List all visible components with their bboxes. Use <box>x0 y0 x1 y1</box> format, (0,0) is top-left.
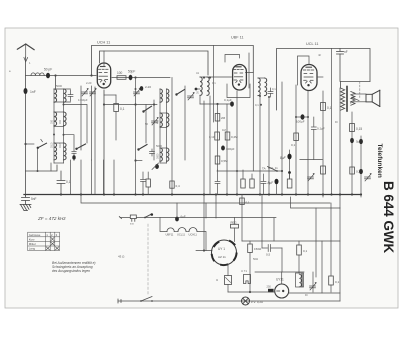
wire UCL anode stub <box>317 76 323 78</box>
ground bus main <box>24 194 361 196</box>
choke coil boxed <box>296 273 304 287</box>
tap arrow <box>352 98 359 101</box>
switch S3 <box>175 93 177 95</box>
mains entry mark <box>118 299 121 303</box>
wire stub above UBF <box>225 55 240 63</box>
svg-text:0310: 0310 <box>51 142 54 148</box>
output transformer primary <box>341 88 345 110</box>
resistor x299 <box>297 245 302 255</box>
inductor L3b <box>64 143 67 160</box>
wire transformer top feed <box>341 81 371 88</box>
capacitor on y241 <box>262 241 282 272</box>
trimmer padder <box>152 117 159 125</box>
wire x95 <box>94 87 96 195</box>
resistor 0.1M on x296 <box>294 133 299 141</box>
svg-text:Dr: Dr <box>335 120 338 124</box>
svg-text:UCH11: UCH11 <box>189 233 198 237</box>
coil bank 1 left winding column <box>53 89 55 163</box>
output transformer secondary <box>351 92 355 106</box>
wire vertical x91.5 mid <box>91 86 93 160</box>
wire x282 long <box>281 82 283 195</box>
svg-text:0000: 0000 <box>157 153 160 159</box>
tube UBF11 electrodes <box>234 67 244 83</box>
wire oscillator anode row <box>112 77 170 79</box>
svg-text:0,1: 0,1 <box>246 201 250 205</box>
svg-text:TA: TA <box>262 167 266 171</box>
capacitor IFT2 <box>268 88 273 97</box>
resistor x172 <box>170 181 174 188</box>
svg-text:0,1: 0,1 <box>327 106 332 110</box>
svg-text:0,1: 0,1 <box>255 103 259 107</box>
svg-text:50Ω: 50Ω <box>253 257 258 261</box>
barretter U71 <box>244 275 251 284</box>
inductor L1b <box>64 89 67 102</box>
coil bank 2 column a <box>159 89 161 163</box>
trimmer bottom <box>310 282 317 290</box>
wire transformer connections <box>353 93 366 95</box>
capacitor 50pF blob <box>46 73 50 79</box>
wire IFT1 to UBF <box>207 76 232 78</box>
capacitor padder <box>150 149 155 156</box>
capacitor across antenna coil <box>68 90 73 101</box>
svg-text:Dr: Dr <box>305 293 308 297</box>
svg-text:0,5: 0,5 <box>266 253 271 257</box>
capacitor blob x361 <box>360 136 362 197</box>
rectifier lower chain <box>227 264 229 276</box>
svg-text:43 Ω: 43 Ω <box>118 255 125 259</box>
wire x217 <box>217 104 219 170</box>
wire vertical x154 <box>153 100 155 160</box>
svg-text:0,1: 0,1 <box>335 280 340 284</box>
ground chassis symbol <box>20 205 31 211</box>
trimmer cluster osc top <box>134 88 141 96</box>
inductor L6a <box>160 148 162 161</box>
svg-text:0,5M: 0,5M <box>221 159 228 163</box>
tube UCL11 electrodes <box>303 67 313 83</box>
switch S1b <box>75 148 77 150</box>
svg-text:030: 030 <box>51 119 54 124</box>
svg-text:Lang: Lang <box>29 247 36 251</box>
svg-text:150Ω: 150Ω <box>254 247 262 251</box>
inductor L2a <box>54 112 57 126</box>
wire x296 long <box>295 85 297 195</box>
capacitor 5nF to chassis <box>22 195 30 205</box>
capacitor small x74 <box>72 152 76 161</box>
node coil taps <box>53 134 55 136</box>
inductor L1a <box>54 89 57 102</box>
svg-text:U 71: U 71 <box>241 269 247 273</box>
wire top loop A <box>92 46 254 76</box>
svg-text:0,1: 0,1 <box>272 87 276 91</box>
wire antenna lead vertical <box>25 57 27 196</box>
svg-text:0,1: 0,1 <box>120 107 125 111</box>
output transformer core <box>346 87 348 112</box>
svg-text:0,4: 0,4 <box>176 184 181 188</box>
wire x116 <box>115 95 117 104</box>
svg-text:Gehäuse: Gehäuse <box>29 233 41 237</box>
wire IFT1 drops <box>199 96 201 104</box>
capacitor blob cluster mid <box>155 164 159 169</box>
resistor 100 <box>117 76 126 80</box>
svg-text:Mittel: Mittel <box>29 242 36 246</box>
svg-text:040: 040 <box>59 119 62 124</box>
tube UCH11 cathode drop <box>103 90 105 195</box>
wire down to coil bank <box>55 76 57 90</box>
wire rail y171 <box>217 170 282 172</box>
svg-text:UY11: UY11 <box>276 278 284 282</box>
switch S1a band switch <box>37 147 39 149</box>
svg-text:P.V. 0,2A: P.V. 0,2A <box>251 300 263 304</box>
svg-text:5000: 5000 <box>56 84 62 88</box>
note italic text <box>52 261 96 273</box>
switch mains selector <box>144 217 146 219</box>
resistor 0.1 x242 <box>240 198 245 205</box>
svg-text:5000: 5000 <box>156 144 162 148</box>
svg-text:250: 250 <box>267 285 272 289</box>
resistor right lower <box>321 166 326 174</box>
wire x177 drop <box>176 203 178 218</box>
capacitor blob on x352 <box>350 138 354 143</box>
capacitor 50pF blob 2 <box>129 75 133 80</box>
components above bus: cluster x143 capacitor <box>141 172 146 195</box>
trimmer capacitor T2 <box>90 88 97 96</box>
svg-text:5nF: 5nF <box>31 197 37 201</box>
resistor x148 <box>146 179 150 187</box>
wire lower rail y208 <box>291 197 341 208</box>
svg-text:U: U <box>216 278 218 282</box>
resistor x243 <box>241 179 245 188</box>
svg-text:2M: 2M <box>221 116 226 120</box>
switch TA pickup <box>276 170 278 172</box>
capacitor blob heater <box>175 217 179 222</box>
svg-text:nF: nF <box>344 50 348 54</box>
svg-text:UY 1: UY 1 <box>218 247 225 251</box>
fuse holder circle <box>275 284 289 298</box>
wire x352 drop <box>351 112 353 195</box>
resistor 2M <box>215 114 220 122</box>
svg-text:6µF: 6µF <box>181 215 186 219</box>
inductor L6b <box>167 148 169 161</box>
svg-text:2-20: 2-20 <box>145 85 151 89</box>
svg-text:0,15: 0,15 <box>356 127 362 131</box>
svg-text:41: 41 <box>196 71 199 75</box>
wire vertical x185 <box>184 86 186 160</box>
resistor 0.1 osc <box>114 104 119 112</box>
wire x331 long <box>331 49 333 195</box>
coil bank 2 column b <box>166 89 168 163</box>
wire x146 <box>145 105 147 144</box>
wire top loop C <box>100 51 209 75</box>
svg-text:0315: 0315 <box>59 142 62 148</box>
svg-text:a a: a a <box>130 223 134 226</box>
wire left return y171 <box>26 165 58 171</box>
wire rail y159.5 <box>300 159 323 161</box>
verticals bus to mains row <box>205 203 207 218</box>
svg-text:0,2M: 0,2M <box>231 135 238 139</box>
tube UBF11 envelope <box>233 65 247 91</box>
svg-text:nF: nF <box>318 53 321 57</box>
inductor antenna series coil <box>31 73 44 76</box>
svg-text:UCL 11: UCL 11 <box>306 42 318 46</box>
node antenna wire at gate <box>90 74 92 76</box>
IF transformer 2 winding a <box>258 78 260 96</box>
resistor x289 <box>287 179 292 188</box>
svg-text:50 pF: 50 pF <box>44 68 52 72</box>
svg-text:des Ausgangstrafos legen: des Ausgangstrafos legen <box>52 269 90 273</box>
capacitor 100uF cathode <box>296 116 308 118</box>
trimmer x367 <box>365 173 372 181</box>
resistor above rectifier <box>231 224 239 228</box>
resistor 0.1M <box>215 132 220 140</box>
inductor L3a <box>54 143 57 160</box>
inductor L5b <box>167 113 169 127</box>
wire x227 <box>226 104 228 195</box>
inductor L5a <box>160 113 162 127</box>
capacitor 0.1uF mid <box>313 117 315 127</box>
svg-text:0,1: 0,1 <box>66 180 71 184</box>
wire bank1 tap row <box>63 104 65 106</box>
svg-text:UCL11: UCL11 <box>177 233 185 237</box>
mains plug symbol <box>119 215 136 221</box>
svg-text:450: 450 <box>157 119 160 124</box>
svg-text:50: 50 <box>145 122 148 126</box>
inductor L2b <box>64 112 67 126</box>
wire coil group links bank2 <box>160 112 167 114</box>
heater chain UCH11 <box>189 228 197 232</box>
svg-text:0,1: 0,1 <box>291 143 296 147</box>
trimmer x310 <box>308 173 315 181</box>
wire coil mid link <box>54 101 71 103</box>
svg-text:100: 100 <box>117 71 123 75</box>
tube UCH11 electrodes <box>99 67 109 83</box>
wire UBF grid loop <box>227 84 250 98</box>
capacitor x217.5 <box>215 170 220 195</box>
barretter U50 <box>225 276 232 285</box>
wire tube top cap stub <box>103 51 105 66</box>
mains bottom line <box>118 300 340 302</box>
IF transformer 1 winding a <box>200 77 202 95</box>
rectifier tube socket UY11 <box>212 240 237 265</box>
capacitor blob 0.1 <box>230 101 234 106</box>
svg-text:0,1: 0,1 <box>212 81 216 85</box>
node dots IFT2 <box>259 95 261 97</box>
switch link dashed <box>147 224 149 296</box>
antenna <box>17 44 34 50</box>
wire vertical x80 <box>80 86 82 150</box>
pilot lamp <box>242 297 250 305</box>
wire coil group links bank1 <box>54 111 64 113</box>
IF transformer 1 winding b <box>207 77 209 95</box>
svg-text:2-20: 2-20 <box>86 81 92 85</box>
capacitor 1nF feedthrough on antenna lead <box>24 88 28 94</box>
svg-text:0,1M: 0,1M <box>209 135 216 139</box>
wire bank1 tap row 2 <box>63 134 65 136</box>
svg-text:UBF 11: UBF 11 <box>231 36 244 40</box>
svg-text:1nF: 1nF <box>30 90 36 94</box>
svg-text:Kurz: Kurz <box>29 238 35 242</box>
svg-text:1=10µF: 1=10µF <box>78 98 88 102</box>
svg-text:UCH 11: UCH 11 <box>97 41 110 45</box>
svg-text:0,1µF: 0,1µF <box>317 127 325 131</box>
svg-text:REG: REG <box>231 220 237 224</box>
svg-text:0,1: 0,1 <box>303 249 308 253</box>
wire x253 drop <box>252 73 254 172</box>
wire top loop B <box>277 49 371 111</box>
wire y241 rail <box>242 240 340 242</box>
wire UBF grid row <box>200 103 232 105</box>
resistor on x352 <box>350 124 355 132</box>
switch S2b <box>137 148 139 150</box>
tube UCH11 envelope <box>97 63 110 88</box>
inductor L4a <box>160 89 162 102</box>
wire IFT1 tops <box>200 76 207 78</box>
resistor x252 <box>250 179 254 188</box>
wire osc grid row <box>104 104 157 106</box>
wire x213 drop <box>213 46 215 123</box>
resistor 0.2 on x352 <box>350 167 355 174</box>
resistor 1500 right of rectifier <box>248 244 253 253</box>
wire verticals to ground bus left <box>50 163 52 171</box>
trimmer capacitor T1 <box>82 88 89 96</box>
svg-text:0,1µF: 0,1µF <box>224 98 232 102</box>
node <box>195 88 198 91</box>
wire UBF cathode drop <box>236 91 238 195</box>
wire x323 long <box>322 91 324 197</box>
wire stub above UCL <box>298 56 310 85</box>
resistor 0.5M <box>215 156 220 164</box>
inductor L4b <box>167 89 169 102</box>
node junction <box>54 74 56 76</box>
svg-text:ZF = 472 kHz: ZF = 472 kHz <box>37 216 66 221</box>
wire y292 rail <box>228 291 275 293</box>
heater chain UCL11 <box>178 228 186 232</box>
coil bank 1 right winding column <box>63 89 65 163</box>
svg-text:UBF11: UBF11 <box>166 233 174 237</box>
capacitor 8uF lower blob <box>275 179 279 185</box>
capacitor 8uF blob <box>289 150 291 179</box>
wire x340 drop <box>339 88 341 208</box>
loudspeaker <box>366 90 380 106</box>
wire heater links <box>174 231 178 233</box>
wire switch row <box>26 143 35 145</box>
node <box>134 76 136 78</box>
node dots IFT1 <box>203 76 205 78</box>
capacitor x263.5 <box>261 174 266 195</box>
svg-text:Telefunken: Telefunken <box>376 144 383 178</box>
switch S2a <box>142 110 144 112</box>
wire coil top link <box>54 88 71 90</box>
wire antenna top horizontal <box>26 75 97 77</box>
svg-text:50pF: 50pF <box>128 70 135 74</box>
wire vertical x172 <box>171 78 173 195</box>
wire lower rail y203 <box>81 195 330 204</box>
svg-text:AZ 11: AZ 11 <box>218 255 226 259</box>
misc small labels <box>9 53 338 297</box>
wire x249 drop <box>248 53 250 88</box>
resistor x331 <box>329 276 334 285</box>
wire UCL cathode drop <box>307 91 309 195</box>
table wave band <box>28 232 60 250</box>
trimmer T5 <box>188 92 195 100</box>
mains input row <box>120 217 276 219</box>
wire IFT2 drops <box>259 96 261 195</box>
tube UCL11 envelope <box>301 65 317 91</box>
svg-text:B 644 GWK: B 644 GWK <box>381 181 396 254</box>
wire vertical x135 <box>135 78 137 195</box>
fuse element <box>268 289 274 292</box>
svg-text:100pF: 100pF <box>226 147 235 151</box>
capacitor 100pF blob <box>221 146 225 151</box>
junction dots on bus <box>60 193 362 195</box>
resistor 0.1 right <box>321 103 326 111</box>
capacitor 0.1uF below coils <box>57 171 65 195</box>
heater chain UBF11 <box>167 228 174 232</box>
resistor 0.2M <box>225 132 230 140</box>
dashed tap link <box>359 81 361 97</box>
wire y272 rail <box>255 271 304 273</box>
mains switch <box>140 297 153 302</box>
IF transformer 2 winding b <box>265 78 267 96</box>
svg-text:100µF: 100µF <box>296 120 305 124</box>
capacitor coupling top <box>337 49 344 82</box>
